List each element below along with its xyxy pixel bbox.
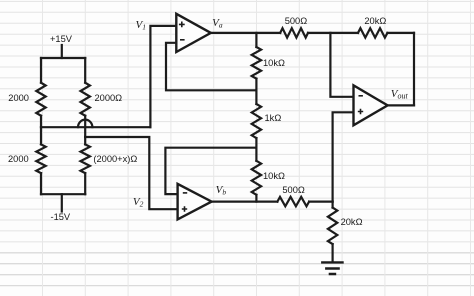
wire U2 inverting input feedback — [165, 148, 256, 194]
resistor 2000 (left top) leads — [40, 58, 42, 83]
wire 500 to junction — [308, 32, 358, 34]
U3 minus input symbol — [359, 95, 363, 97]
wire node B to V2 riser — [85, 137, 177, 209]
value 500Ω (bottom) — [282, 186, 304, 195]
resistor 20kΩ (ground) — [328, 208, 337, 245]
resistor 1kΩ top lead — [255, 90, 257, 104]
U1 minus input symbol — [180, 39, 185, 41]
resistor 10kΩ (lower) — [252, 161, 261, 195]
node label Vout — [391, 89, 408, 101]
resistor (2000+x)Ω bottom lead — [84, 173, 86, 194]
value 20kΩ (ground) — [341, 218, 363, 227]
wire node A to V1 riser — [41, 126, 150, 128]
resistor 20kΩ (top) — [358, 28, 387, 37]
resistor 10kΩ (lower) bottom lead — [255, 195, 257, 202]
wire Vb output — [212, 201, 278, 203]
label +15V — [50, 35, 72, 44]
wire junction to U3 non-inverting input — [333, 112, 354, 201]
wire hop over right branch — [78, 120, 92, 128]
wire -15V stub — [61, 194, 63, 211]
resistor 20kΩ (ground) bottom lead — [332, 244, 334, 261]
wire 20k to corner — [387, 32, 414, 34]
value (2000+x)Ω — [93, 155, 137, 164]
resistor (2000+x)Ω — [81, 144, 90, 173]
wire Va output — [211, 32, 280, 34]
node label Va — [212, 18, 222, 29]
resistor 2000 (left bottom) bottom lead — [40, 173, 42, 194]
op-amp U3 (output) — [354, 85, 388, 125]
value 10kΩ (upper) — [263, 59, 285, 68]
resistor 500Ω (bottom) — [277, 197, 309, 206]
resistor 10kΩ (upper) top lead — [255, 33, 257, 47]
value 1kΩ — [265, 114, 282, 123]
resistor (2000+x)Ω top lead — [84, 137, 86, 144]
node label V2 — [133, 197, 143, 208]
wire bottom rail — [41, 193, 85, 195]
resistor 1kΩ bottom lead — [255, 138, 257, 148]
wire junction to U3 inverting input — [330, 33, 353, 97]
wire feedback right drop — [413, 33, 415, 106]
wire V1 riser — [150, 26, 176, 127]
value 500Ω (top) — [285, 17, 307, 26]
U2 minus input symbol — [183, 192, 187, 194]
U2 plus input symbol — [182, 206, 187, 211]
wire right branch through hop — [84, 116, 86, 137]
node label V1 — [136, 20, 146, 31]
value 2000Ω (right top) — [95, 94, 123, 103]
resistor 10kΩ (upper) bottom lead — [255, 79, 257, 91]
op-amp U1 (top) — [176, 14, 211, 52]
value 10kΩ (lower) — [263, 172, 285, 181]
wire +15V stub — [61, 45, 63, 58]
op-amp U2 (bottom) — [178, 184, 212, 220]
U1 plus input symbol — [179, 22, 185, 28]
wire left branch to node — [40, 116, 42, 128]
wire Vout — [388, 104, 414, 106]
wire 500 to junction bottom — [309, 201, 333, 203]
resistor 2000 (left top) — [36, 83, 45, 116]
U3 plus input symbol — [358, 109, 363, 114]
node label Vb — [216, 185, 226, 196]
resistor 1kΩ — [252, 104, 261, 138]
value 20kΩ (top) — [364, 17, 386, 26]
resistor 10kΩ (lower) top lead — [255, 148, 257, 161]
resistor 2000Ω (right top) — [81, 83, 90, 116]
resistor 2000Ω (right top) lead — [84, 58, 86, 83]
resistor 2000 (left bottom) top lead — [40, 127, 42, 144]
ground — [322, 262, 342, 274]
wire top rail — [41, 57, 85, 59]
resistor 20kΩ (ground) top lead — [332, 202, 334, 208]
value 2000 (left bottom) — [8, 155, 29, 164]
label -15V — [51, 213, 71, 222]
resistor 500Ω (top) — [280, 28, 308, 37]
wire U1 inverting input feedback — [166, 43, 256, 91]
resistor 10kΩ (upper) — [252, 47, 261, 79]
value 2000 (left top) — [8, 94, 29, 103]
resistor 2000 (left bottom) — [36, 144, 45, 173]
